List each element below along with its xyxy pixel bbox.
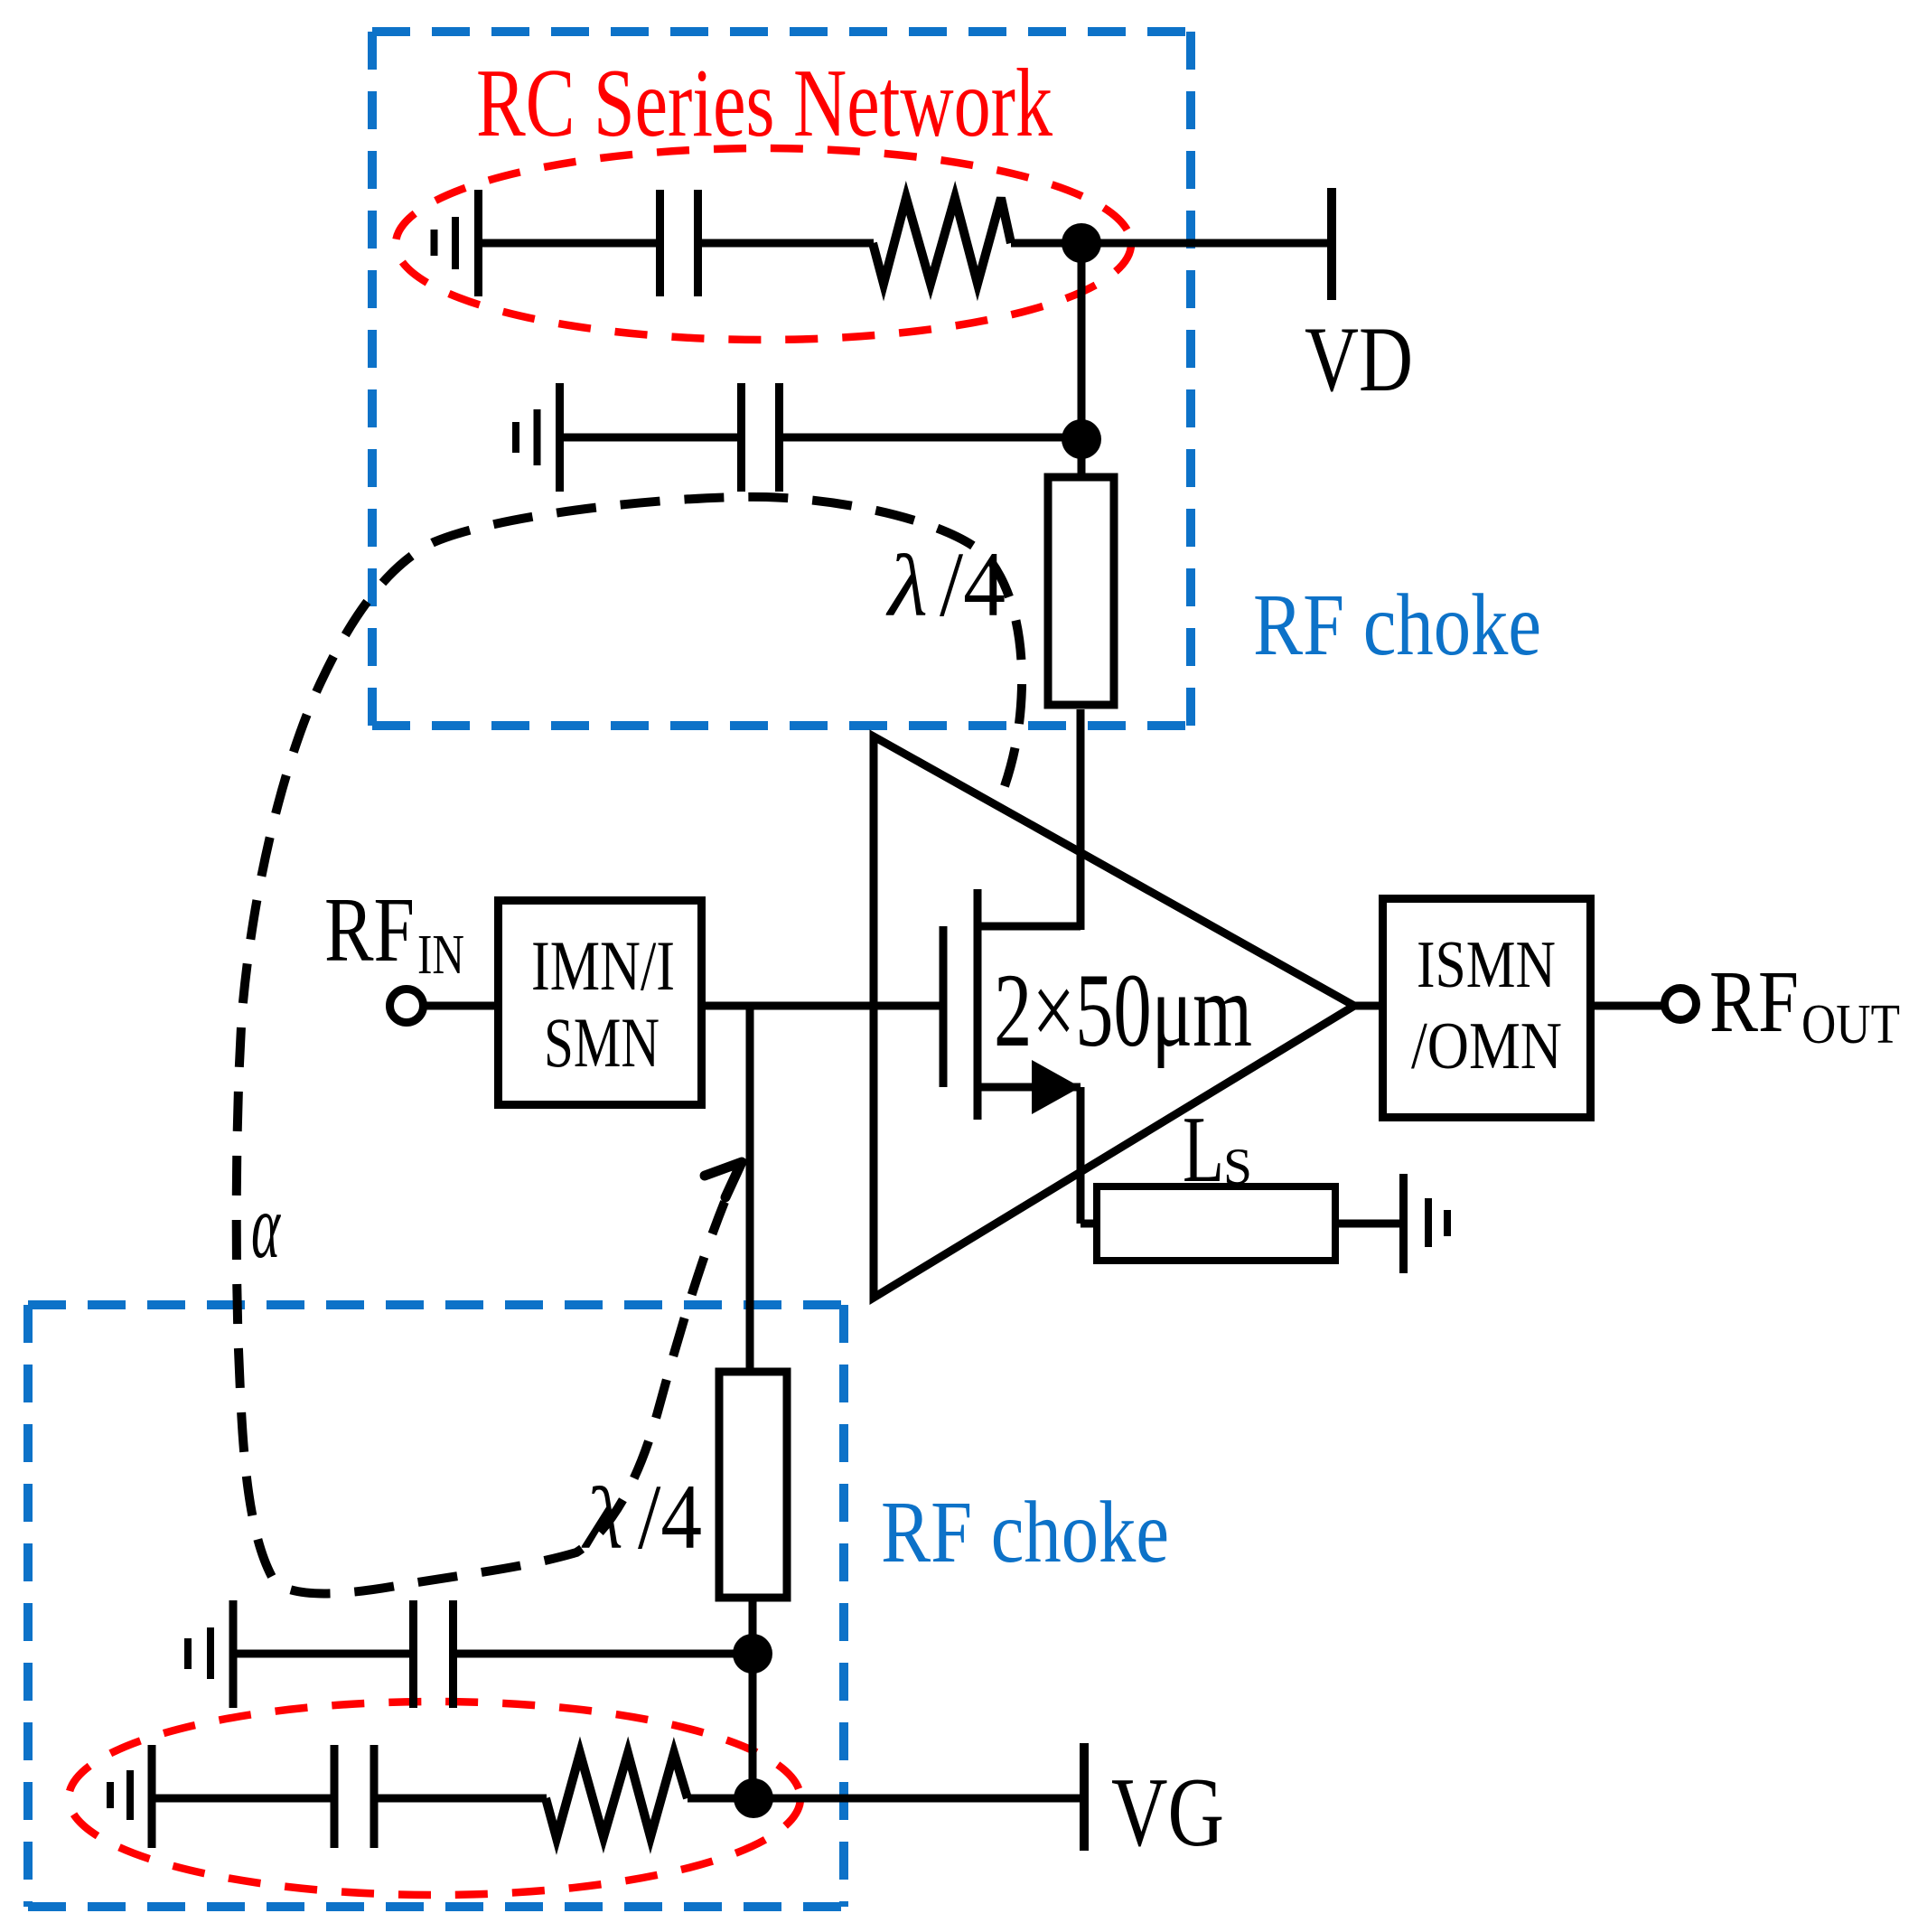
RF choke dashed box (top, drain bias network) bbox=[372, 32, 1191, 726]
ground (row1) bbox=[435, 190, 479, 296]
wire IMN box to gate bbox=[706, 1002, 943, 1010]
node drain-bias junction (row1) bbox=[1062, 223, 1101, 263]
svg-text:/4: /4 bbox=[638, 1466, 702, 1569]
svg-text:VD: VD bbox=[1305, 308, 1413, 411]
wire source down bbox=[1077, 1087, 1085, 1224]
wire ground to capacitor (row1) bbox=[482, 239, 657, 248]
RF_IN terminal circle bbox=[390, 989, 424, 1023]
wire capacitor to node (row2) bbox=[782, 434, 1081, 442]
VD terminal bar bbox=[1327, 188, 1336, 300]
capacitor C (row1) bbox=[660, 190, 698, 296]
capacitor C (row2) bbox=[742, 383, 780, 492]
transistor source lead bbox=[978, 1083, 1081, 1092]
svg-text:/OMN: /OMN bbox=[1411, 1009, 1562, 1083]
svg-text:/4: /4 bbox=[940, 533, 1006, 636]
capacitor C (row3) bbox=[414, 1600, 454, 1708]
wire triangle apex to ISMN box bbox=[1354, 1002, 1379, 1010]
inductor Ls (transmission line) bbox=[1097, 1186, 1335, 1261]
svg-text:S: S bbox=[1223, 1139, 1252, 1196]
capacitor C (row4) bbox=[334, 1745, 374, 1848]
RF choke dashed box (bottom, gate bias network) bbox=[28, 1305, 844, 1907]
VG terminal bar bbox=[1080, 1743, 1089, 1851]
svg-text:L: L bbox=[1183, 1096, 1224, 1202]
svg-text:α: α bbox=[251, 1176, 281, 1278]
svg-text:IN: IN bbox=[417, 924, 464, 986]
node gate RC junction (row4) bbox=[734, 1778, 773, 1818]
svg-text:IMN/I: IMN/I bbox=[531, 926, 675, 1005]
svg-text:ISMN: ISMN bbox=[1417, 928, 1556, 1002]
svg-text:SMN: SMN bbox=[544, 1003, 660, 1082]
wire ground to capacitor (row3) bbox=[237, 1650, 410, 1658]
IMN/ISMN box bbox=[499, 901, 702, 1105]
wire source to Ls bbox=[1081, 1220, 1099, 1228]
wire capacitor to node (row3) bbox=[456, 1650, 753, 1658]
wire quarter-wave line to drain bbox=[1077, 709, 1085, 930]
ground (row2) bbox=[516, 383, 560, 492]
ground (row4) bbox=[110, 1745, 152, 1848]
svg-text:RF: RF bbox=[1709, 953, 1799, 1050]
wire capacitor to resistor (row4) bbox=[378, 1795, 547, 1803]
RF_OUT terminal circle bbox=[1665, 989, 1697, 1020]
svg-text:λ: λ bbox=[581, 1470, 623, 1567]
transistor drain lead bbox=[978, 923, 1081, 931]
svg-text:OUT: OUT bbox=[1801, 994, 1900, 1055]
transistor gate bar bbox=[940, 926, 948, 1087]
wire gate junction down to quarter-wave line bbox=[746, 1006, 754, 1375]
transistor channel bar bbox=[974, 889, 982, 1120]
node gate bypass junction (row3) bbox=[733, 1634, 772, 1674]
node bypass junction (row2) bbox=[1062, 419, 1101, 459]
arrowhead of alpha loop bbox=[705, 1162, 742, 1197]
resistor R (row1) bbox=[873, 198, 1011, 284]
wire resistor to VG terminal bbox=[688, 1795, 1080, 1803]
amplifier triangle bbox=[874, 736, 1354, 1298]
feedback loop alpha dashed curve bbox=[237, 497, 1022, 1594]
svg-text:RF choke: RF choke bbox=[881, 1484, 1169, 1581]
svg-text:λ: λ bbox=[885, 538, 928, 634]
wire RF_IN to IMN box bbox=[424, 1002, 494, 1010]
wire Ls to ground bbox=[1335, 1220, 1402, 1228]
quarter-wave line (gate RF choke) bbox=[719, 1372, 787, 1598]
ISMN/OMN box bbox=[1383, 899, 1591, 1118]
wire resistor to VD terminal bbox=[1011, 239, 1332, 248]
ground (source) bbox=[1404, 1174, 1448, 1273]
ground (row3) bbox=[188, 1600, 233, 1708]
svg-text:RC Series Network: RC Series Network bbox=[476, 50, 1053, 157]
transistor source arrow bbox=[1032, 1060, 1081, 1114]
wire ground to capacitor (row2) bbox=[563, 434, 738, 442]
RC series network dashed ellipse (bottom) bbox=[69, 1702, 800, 1895]
RC series network dashed ellipse (top) bbox=[396, 148, 1131, 340]
svg-text:2×50μm: 2×50μm bbox=[994, 952, 1252, 1069]
wire VD node down to quarter-wave line bbox=[1078, 243, 1086, 481]
wire capacitor to resistor (row1) bbox=[701, 239, 874, 248]
wire ISMN box to RF_OUT bbox=[1595, 1002, 1664, 1010]
quarter-wave line (drain RF choke) bbox=[1048, 477, 1114, 705]
svg-text:RF choke: RF choke bbox=[1253, 577, 1541, 674]
resistor R (row4) bbox=[546, 1753, 688, 1838]
svg-text:VG: VG bbox=[1111, 1758, 1224, 1867]
svg-text:RF: RF bbox=[324, 879, 415, 981]
wire ground to capacitor (row4) bbox=[155, 1795, 332, 1803]
wire quarter-wave line to bypass node bbox=[749, 1598, 757, 1798]
